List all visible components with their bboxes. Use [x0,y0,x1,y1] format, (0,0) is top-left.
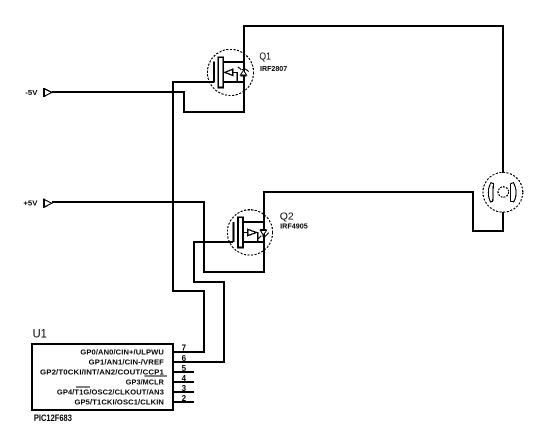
motor outer circle [483,172,523,212]
motor right brush crescent [510,183,516,202]
Q2 body circle [227,210,272,255]
svg-text:Q2: Q2 [280,210,294,222]
svg-text:3: 3 [182,384,187,393]
svg-text:-5V: -5V [25,90,37,97]
terminal +5V [44,199,52,208]
motor left brush crescent [488,183,493,202]
Q1 gate lead [213,61,215,82]
svg-text:+5V: +5V [23,200,37,207]
Q1 body diode cathode bar [240,75,246,77]
wire: Q1 gate run down to U1 pin 7 [173,82,214,352]
transistor Q1 (N-MOSFET IRF2807) [207,49,253,95]
svg-text:5: 5 [182,364,187,373]
svg-text:6: 6 [182,354,187,363]
terminal -5V [44,88,52,97]
U1 pin 3 T1G overline [76,386,90,388]
U1 box [32,344,173,410]
Q2 drain connection [243,221,265,223]
wire: -5V terminal to Q1 source [52,82,244,112]
Q1 body diode triangle [240,70,246,75]
svg-text:GP3/MCLR: GP3/MCLR [126,380,164,387]
svg-text:7: 7 [182,344,187,353]
svg-text:GP5/T1CKI/OSC1/CLKIN: GP5/T1CKI/OSC1/CLKIN [75,400,165,407]
Q2 source connection [243,241,265,243]
Q1 channel arrow (points left) [225,69,233,75]
Q1 drain connection [223,61,245,63]
svg-text:IRF4905: IRF4905 [280,224,308,231]
transistor Q2 (P-MOSFET IRF4905) [227,210,272,255]
svg-text:Q1: Q1 [259,51,271,63]
Q2 gate bar [238,217,243,247]
Q2 bulk line and step [243,233,258,243]
U1 pin 6 stub [173,361,224,363]
svg-text:GP0/AN0/CIN+/ULPWU: GP0/AN0/CIN+/ULPWU [80,349,164,356]
wire: Q2 gate run down to U1 pin 6 [173,242,233,362]
Q2 body diode zener wings [258,233,269,239]
IC U1 PIC12F683 [32,344,224,410]
wire: +5V terminal down and right to Q2 source [52,202,264,272]
U1 pin 5 stub [173,371,194,373]
Q2 body diode cathode bar [260,229,267,231]
svg-text:U1: U1 [33,327,47,341]
wire: Q1 drain up, across top, down to motor + terminal [244,26,503,173]
U1 pin 7 stub [173,351,204,353]
svg-text:GP1/AN1/CIN-/VREF: GP1/AN1/CIN-/VREF [89,359,165,366]
Q1 bulk line and step [233,72,238,82]
motor M (DC motor symbol) [483,172,523,212]
svg-text:2: 2 [182,394,187,403]
Q1 source connection [223,81,245,83]
Q2 channel arrow (points right) [248,229,257,235]
Q2 gate lead [233,222,235,242]
U1 pin 4 stub [173,381,194,383]
Q1 body circle [207,49,253,95]
U1 pin 4 MCLR overline [145,375,168,377]
Q1 gate bar [218,57,223,87]
wire: Q2 drain right, down, to motor - terminal [264,192,503,242]
svg-text:IRF2807: IRF2807 [260,66,287,73]
svg-text:PIC12F683: PIC12F683 [34,413,72,424]
U1 pin 2 stub [173,401,194,403]
U1 pin 3 stub [173,391,194,393]
svg-text:4: 4 [182,374,187,383]
Q2 body diode triangle [260,230,266,235]
Q1 body diode zener wings [238,67,249,72]
motor inner circle [498,187,508,197]
svg-text:GP4/T1G/OSC2/CLKOUT/AN3: GP4/T1G/OSC2/CLKOUT/AN3 [57,390,164,397]
svg-text:GP2/T0CKI/INT/AN2/COUT/CCP1: GP2/T0CKI/INT/AN2/COUT/CCP1 [40,369,164,376]
